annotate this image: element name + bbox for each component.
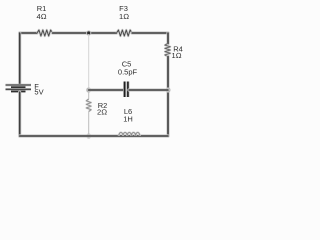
resistor R1 <box>37 4 53 36</box>
wire faint vertical from top node to middle node <box>88 34 90 89</box>
resistor R4 <box>165 44 183 61</box>
capacitor C5 <box>118 60 138 98</box>
wire left upper segment <box>18 33 21 84</box>
wire bottom segment <box>20 134 168 137</box>
wire top-right segment <box>132 31 168 34</box>
wire right upper segment <box>166 33 169 44</box>
svg-text:1H: 1H <box>123 115 133 124</box>
wire left lower segment <box>18 92 21 136</box>
wire from R2 down to bottom node <box>88 112 90 136</box>
node junction bottom (x=88.7, y=136) <box>86 133 91 138</box>
svg-text:1Ω: 1Ω <box>172 51 182 60</box>
svg-text:5V: 5V <box>34 88 43 97</box>
wire top-middle segment <box>53 31 117 34</box>
svg-text:2Ω: 2Ω <box>97 108 107 117</box>
resistor F3 <box>117 4 133 36</box>
node junction right (x=168, y=90) <box>165 87 170 92</box>
wire from middle node down to R2 <box>88 91 90 99</box>
wire right lower segment <box>166 57 169 137</box>
wire middle segment left of C5 <box>89 88 124 91</box>
battery F 5V <box>6 82 44 97</box>
wire top-left segment <box>20 31 37 34</box>
node junction middle (x=88.7, y=90) <box>86 87 91 92</box>
svg-text:0.5pF: 0.5pF <box>118 68 138 77</box>
node junction top (x=88.7, y=33) <box>86 30 91 35</box>
resistor R2 <box>86 99 107 117</box>
inductor L6 <box>119 107 140 136</box>
wire middle segment right of C5 <box>129 88 168 91</box>
svg-text:4Ω: 4Ω <box>37 12 47 21</box>
svg-text:1Ω: 1Ω <box>119 12 129 21</box>
